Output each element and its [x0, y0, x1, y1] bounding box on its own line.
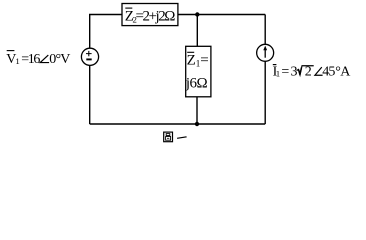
wire left below source: [89, 65, 91, 124]
wire Z1 bottom lead: [196, 97, 198, 124]
I1 overline: [273, 64, 277, 66]
svg-text:V: V: [60, 52, 70, 67]
wire right below source: [264, 61, 266, 124]
node junction top: [195, 12, 199, 16]
angle symbol left: [40, 55, 49, 62]
Z1 overline: [187, 51, 194, 53]
impedance Z2 box: [122, 4, 178, 26]
caption figure glyph 圖 (hand drawn): [164, 132, 173, 142]
svg-text:Z2=2+j2Ω: Z2=2+j2Ω: [125, 9, 176, 25]
svg-text:45: 45: [322, 65, 335, 80]
svg-text:1: 1: [15, 56, 19, 66]
wire top-right: [178, 14, 265, 16]
current source I1: [257, 44, 274, 61]
wire right above source: [264, 15, 266, 45]
sqrt radical sign with vinculum (hand drawn): [297, 66, 314, 75]
Z2 overline: [125, 7, 132, 9]
V1 overline: [7, 50, 15, 52]
angle symbol right: [315, 67, 323, 75]
svg-text:2: 2: [305, 65, 312, 80]
svg-text:A: A: [340, 65, 351, 80]
plus sign: [86, 51, 92, 56]
node junction bottom: [195, 122, 199, 126]
voltage source V1: [81, 48, 98, 65]
wire top-left corner: [90, 15, 122, 49]
wire bottom: [90, 123, 266, 125]
label V1 = 16 angle 0 V: [6, 52, 70, 67]
arrow shaft: [264, 49, 266, 58]
svg-text:16: 16: [28, 52, 41, 67]
caption dash glyph 一 (hand drawn): [177, 136, 187, 139]
impedance Z1 box: [186, 46, 211, 97]
arrow head: [263, 46, 267, 51]
svg-text:1: 1: [276, 68, 280, 78]
wire Z1 top lead: [196, 15, 198, 47]
svg-text:3: 3: [291, 65, 298, 80]
svg-text:Z1=: Z1=: [187, 53, 209, 69]
svg-text:=: =: [281, 65, 289, 80]
svg-text:j6Ω: j6Ω: [185, 76, 208, 92]
label I1 = 3 sqrt2 angle 45 A: [273, 65, 352, 80]
minus sign: [86, 58, 91, 60]
